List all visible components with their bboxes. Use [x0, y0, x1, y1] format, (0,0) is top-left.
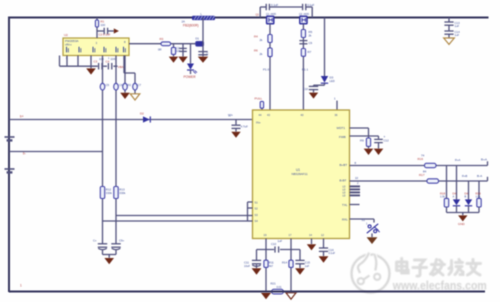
svg-text:LD: LD [343, 186, 346, 188]
svg-text:NB329AF11: NB329AF11 [292, 172, 308, 176]
svg-text:U2: U2 [64, 33, 68, 37]
svg-text:D2: D2 [140, 112, 144, 116]
svg-text:R9: R9 [360, 139, 364, 143]
svg-text:0.1uF: 0.1uF [103, 33, 111, 37]
svg-text:C9: C9 [309, 41, 313, 45]
svg-text:vRtl-c: vRtl-c [65, 43, 72, 47]
svg-text:A: A [453, 195, 455, 199]
svg-text:B: B [465, 195, 467, 199]
svg-text:+: + [384, 135, 386, 139]
svg-text:1uF: 1uF [278, 239, 283, 243]
svg-text:4.7uF: 4.7uF [241, 125, 249, 129]
svg-text:LED: LED [330, 79, 335, 83]
svg-text:1uF: 1uF [305, 264, 310, 268]
svg-text:C5: C5 [106, 83, 110, 87]
svg-text:POWER: POWER [184, 75, 197, 79]
svg-text:1.0k: 1.0k [476, 195, 482, 199]
svg-text:C9+: C9+ [119, 239, 125, 243]
svg-text:FWB: FWB [339, 135, 346, 139]
svg-text:B+A: B+A [481, 158, 488, 162]
svg-text:10: 10 [355, 176, 359, 180]
svg-text:84: 84 [423, 170, 427, 174]
svg-text:330k: 330k [106, 191, 113, 195]
svg-text:LD: LD [343, 189, 346, 191]
svg-text:104: 104 [99, 57, 104, 61]
svg-text:R2: R2 [128, 83, 132, 87]
svg-text:S1: S1 [255, 200, 259, 204]
svg-text:R21: R21 [271, 282, 277, 286]
svg-text:1.0k: 1.0k [440, 195, 446, 199]
svg-text:D3: D3 [330, 76, 334, 80]
svg-text:0.1uF: 0.1uF [307, 3, 314, 7]
svg-text:1uF: 1uF [455, 24, 460, 28]
svg-text:P1.1: P1.1 [302, 68, 309, 72]
svg-text:4k7: 4k7 [269, 264, 274, 268]
svg-text:R17: R17 [419, 173, 425, 177]
svg-text:R+A: R+A [455, 158, 461, 162]
svg-text:S2: S2 [255, 206, 259, 210]
svg-text:330k: 330k [119, 191, 126, 195]
svg-text:B+BT: B+BT [340, 163, 348, 167]
svg-text:C10: C10 [303, 87, 308, 91]
svg-text:S4: S4 [255, 219, 259, 223]
svg-text:W+: W+ [228, 114, 233, 118]
svg-text:S3: S3 [255, 213, 259, 217]
svg-text:C2: C2 [99, 33, 103, 37]
svg-text:Q1 -4435: Q1 -4435 [266, 13, 277, 16]
svg-text:Q1: Q1 [256, 13, 260, 17]
svg-text:0.1uF: 0.1uF [271, 3, 278, 7]
svg-text:Q2 -4435: Q2 -4435 [299, 13, 310, 16]
svg-text:0.1uF: 0.1uF [329, 251, 336, 255]
svg-text:RXL: RXL [342, 218, 348, 222]
svg-text:R16: R16 [418, 157, 424, 161]
svg-text:b+: b+ [20, 115, 24, 119]
svg-text:74: 74 [421, 154, 425, 158]
svg-text:PW2053A: PW2053A [65, 39, 79, 43]
svg-text:C6: C6 [119, 83, 123, 87]
svg-text:10uF: 10uF [244, 264, 250, 268]
svg-text:R6: R6 [254, 49, 258, 53]
svg-text:R14: R14 [282, 261, 288, 265]
svg-text:B-BT: B-BT [340, 179, 347, 183]
svg-text:R3: R3 [160, 37, 164, 41]
svg-text:C: C [207, 52, 209, 56]
svg-text:0R: 0R [158, 48, 162, 52]
svg-text:C4: C4 [106, 60, 110, 64]
svg-text:FB2(600R): FB2(600R) [183, 24, 199, 28]
svg-text:LD: LD [343, 192, 346, 194]
svg-text:P1.0: P1.0 [263, 68, 270, 72]
svg-text:1: 1 [20, 284, 22, 288]
svg-text:WDT1: WDT1 [337, 126, 346, 130]
svg-text:R7: R7 [308, 50, 312, 54]
svg-text:TXL: TXL [342, 203, 348, 207]
svg-text:C3: C3 [94, 60, 98, 64]
svg-text:100: 100 [101, 23, 106, 27]
svg-text:C7: C7 [138, 83, 142, 87]
svg-text:LD: LD [343, 195, 346, 197]
svg-text:R4: R4 [254, 35, 258, 39]
svg-text:1uF: 1uF [455, 33, 460, 37]
svg-text:C+: C+ [93, 239, 97, 243]
svg-text:0.01: 0.01 [277, 285, 283, 289]
svg-text:C12: C12 [384, 139, 390, 143]
svg-text:S1: S1 [362, 218, 366, 222]
svg-text:D1: D1 [196, 37, 200, 41]
svg-text:C10: C10 [271, 242, 277, 246]
svg-text:104: 104 [176, 49, 181, 53]
svg-text:PULL: PULL [255, 97, 263, 101]
svg-text:104: 104 [111, 57, 116, 61]
svg-text:R+B: R+B [462, 174, 468, 178]
svg-text:GND: GND [458, 222, 466, 226]
svg-text:IN+: IN+ [256, 121, 261, 125]
svg-text:www.elecfans.com: www.elecfans.com [392, 279, 487, 292]
